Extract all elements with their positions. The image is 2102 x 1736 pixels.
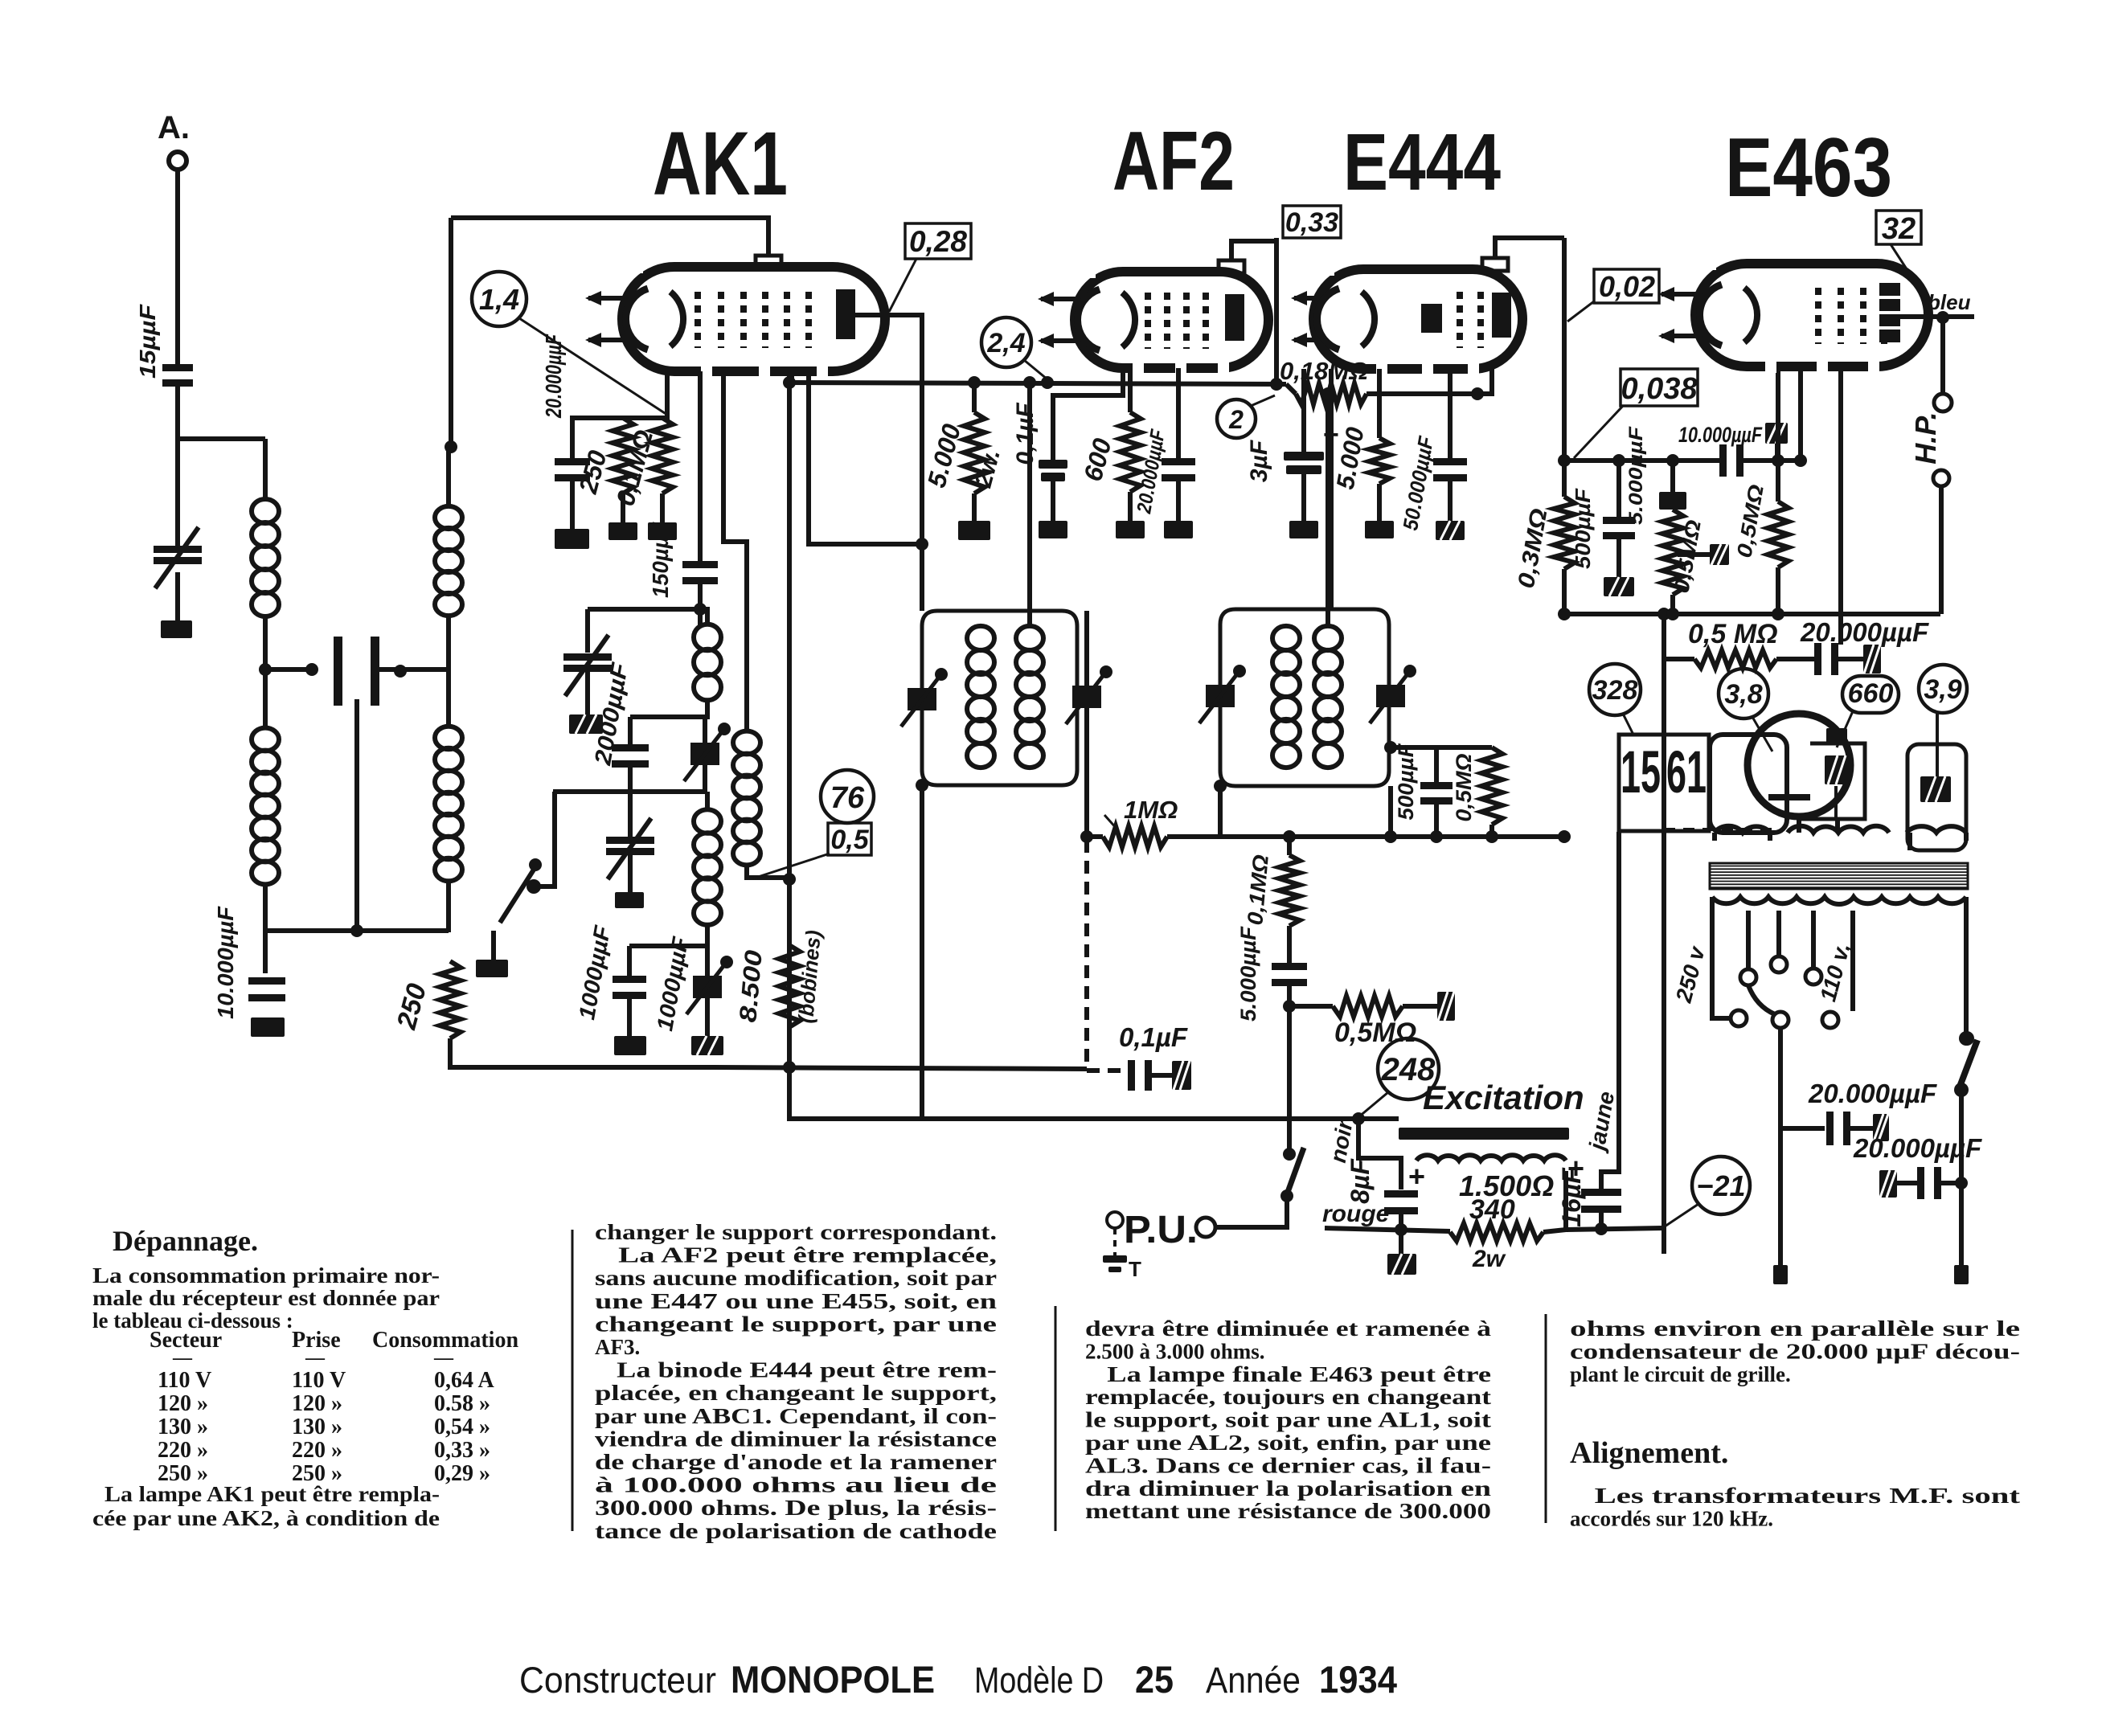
- svg-text:110 V: 110 V: [158, 1368, 211, 1393]
- svg-text:5.000µµF: 5.000µµF: [1236, 925, 1260, 1022]
- inductor antenna coil lower: [252, 728, 279, 751]
- wire 8500 top: [787, 879, 792, 945]
- wire leader 2,4: [1024, 360, 1047, 379]
- inductor coil long: [694, 809, 721, 833]
- label boxed 32: [1876, 211, 1921, 244]
- hatch 10000: [1765, 423, 1788, 444]
- svg-text:120 »: 120 »: [292, 1391, 342, 1416]
- wire AF bus left: [1087, 834, 1103, 839]
- svg-text:20.000µµF: 20.000µµF: [1808, 1079, 1937, 1108]
- svg-text:328: 328: [1592, 675, 1638, 706]
- svg-text:Alignement.: Alignement.: [1570, 1436, 1728, 1470]
- blob 5.000µµF: [1659, 492, 1686, 510]
- capacitor 20.000 µµF AK1: [555, 458, 590, 465]
- label boxed 0,038: [1621, 369, 1698, 406]
- svg-text:10.000µµF: 10.000µµF: [1678, 423, 1763, 447]
- svg-text:La binode E444 peut être rem-: La binode E444 peut être rem-: [595, 1358, 997, 1382]
- wire bus left y1157: [265, 928, 449, 933]
- wire AF2 g pin: [1053, 368, 1123, 460]
- wire sel2 bottom: [1778, 1128, 1783, 1265]
- svg-text:5.000µµF: 5.000µµF: [1625, 425, 1647, 525]
- wire AF2 topcap: [1231, 241, 1276, 260]
- svg-text:remplacée, toujours en changea: remplacée, toujours en changeant: [1085, 1385, 1491, 1409]
- capacitor 20.000 µµF mains 2: [1917, 1167, 1924, 1199]
- svg-text:8µF: 8µF: [1346, 1158, 1375, 1204]
- resistor 0,1 MΩ AK1: [652, 418, 673, 493]
- wire E444 topcap: [1495, 238, 1564, 258]
- wire 500µµF wires: [1434, 747, 1439, 784]
- hatch choke: [1920, 776, 1951, 802]
- wire to osc coil: [446, 447, 451, 506]
- svg-text:La AF2 peut être remplacée,: La AF2 peut être remplacée,: [595, 1243, 997, 1267]
- label circled 76: [821, 770, 874, 823]
- wire leader 0,28: [889, 259, 916, 312]
- svg-text:220 »: 220 »: [292, 1438, 342, 1463]
- speaker box right: [1799, 743, 1865, 819]
- wire switch down: [1959, 1093, 1964, 1183]
- resistor 0,5MΩ cath E463: [1768, 502, 1789, 567]
- svg-text:AF2: AF2: [1112, 115, 1235, 208]
- wire second coil bottom: [446, 881, 451, 932]
- svg-text:2: 2: [1228, 405, 1244, 434]
- svg-text:rouge: rouge: [1322, 1201, 1389, 1227]
- svg-text:3,8: 3,8: [1724, 679, 1762, 710]
- wire leader -21: [1662, 1204, 1698, 1228]
- wire field right: [1563, 1171, 1568, 1232]
- switch wave band lever: [500, 870, 534, 923]
- wire band switch stub: [491, 931, 496, 960]
- wire AK1 g1 pin: [698, 371, 703, 561]
- label circled 328: [1589, 664, 1641, 715]
- wire coil long top: [705, 792, 710, 810]
- svg-text:0,33 »: 0,33 »: [434, 1438, 490, 1463]
- wire E463 cath chain: [1776, 461, 1780, 502]
- capacitor 20.000 µµF grid: [1814, 643, 1821, 675]
- resistor 250 left: [440, 961, 461, 1038]
- wire AK1 cath pin: [572, 371, 667, 460]
- svg-text:0,54 »: 0,54 »: [434, 1415, 490, 1439]
- capacitor 8 µF: [1384, 1190, 1418, 1198]
- resistor 0,1 MΩ pot: [1279, 855, 1300, 926]
- variable capacitor 2000 µµF: [563, 653, 612, 661]
- terminal tap3: [1805, 968, 1821, 985]
- svg-text:15: 15: [1621, 739, 1661, 805]
- wire leader 660: [1837, 711, 1853, 747]
- wire leader 2: [1251, 395, 1275, 406]
- wire antenna to junction: [175, 384, 180, 547]
- switch PU: [1283, 1148, 1296, 1161]
- wire 500 E463: [1616, 461, 1621, 518]
- label circled 2,4: [981, 317, 1031, 367]
- wire coil tall top: [744, 722, 749, 731]
- ground hatch 50000: [1436, 521, 1465, 540]
- wire 3µF wires: [1301, 369, 1306, 452]
- resistor 600: [1120, 412, 1141, 492]
- hatch mains 2: [1879, 1170, 1897, 1198]
- wire tap 2: [1776, 911, 1781, 956]
- wire antenna tee: [178, 436, 265, 441]
- svg-text:La lampe finale E463 peut être: La lampe finale E463 peut être: [1085, 1362, 1491, 1386]
- wire row mid: [1776, 657, 1817, 661]
- svg-text:à 100.000 ohms au lieu de: à 100.000 ohms au lieu de: [595, 1473, 997, 1497]
- svg-text:devra être diminuée et ramenée: devra être diminuée et ramenée à: [1085, 1316, 1492, 1341]
- terminal PU circle: [1196, 1218, 1215, 1237]
- resistor 0,5 MΩ tone: [1289, 1004, 1333, 1009]
- field coil bar: [1399, 1128, 1569, 1140]
- wire leader 248: [1358, 1092, 1388, 1117]
- wire bias bus: [1564, 612, 1940, 616]
- inductor speaker coil B: [1788, 826, 1889, 833]
- svg-text:500µµF: 500µµF: [1571, 488, 1595, 569]
- wire noir: [1358, 1119, 1401, 1189]
- wire box left edge: [449, 218, 453, 447]
- wire E463 g pin: [1798, 366, 1803, 461]
- ground blob 20000 AF2: [1164, 521, 1193, 538]
- svg-text:1934: 1934: [1319, 1658, 1397, 1701]
- wire AK1 screen pin: [789, 371, 794, 381]
- wire 2000 vert: [585, 609, 590, 653]
- wire tap 3: [1811, 911, 1816, 968]
- label boxed 0,28: [905, 223, 971, 259]
- wire leader 1,4: [519, 318, 667, 415]
- ground blob 0,1MΩ AK1: [648, 522, 677, 540]
- blob band switch contact: [476, 960, 508, 977]
- wire dashed 01: [1087, 1068, 1129, 1073]
- wire E463 anode out: [1900, 314, 1974, 319]
- svg-text:340: 340: [1469, 1194, 1515, 1225]
- ground hatch 1000b: [691, 1036, 723, 1055]
- wire coupling tap right: [379, 667, 449, 672]
- resistor 250 AK1: [613, 418, 633, 493]
- svg-text:par une AL2, soit, enfin, par: par une AL2, soit, enfin, par une: [1085, 1431, 1491, 1455]
- wire AVC bracket: [1391, 745, 1492, 750]
- hatch mains 1: [1873, 1114, 1889, 1141]
- tube E444: [1313, 269, 1522, 369]
- resistor 0,5 MΩ AVC: [1481, 747, 1502, 825]
- wire trimmer to ground: [175, 572, 180, 620]
- terminal HP 2: [1933, 470, 1949, 486]
- wire leak bottom: [1670, 595, 1675, 614]
- wire bus 018 left: [1286, 384, 1296, 394]
- wire 8µF down: [1399, 1214, 1403, 1254]
- svg-text:0.58 »: 0.58 »: [434, 1391, 490, 1416]
- node junction antenna coil tap: [259, 663, 272, 676]
- inductor IF2 primary: [1272, 626, 1300, 650]
- wire 2000 gnd: [585, 672, 590, 714]
- wire osc coil bottom: [630, 700, 707, 717]
- svg-text:sans aucune modification, soit: sans aucune modification, soit par: [595, 1266, 997, 1290]
- wire main bus: [789, 383, 1286, 384]
- wire AK1 grid4 pin: [809, 371, 922, 544]
- wire 0,33 drop: [1274, 238, 1279, 384]
- svg-text:male du récepteur est donnée p: male du récepteur est donnée par: [92, 1286, 440, 1310]
- wire tap 4: [1850, 911, 1855, 1011]
- wire 05 AVC bottom: [1489, 825, 1494, 837]
- wire second coil middle: [446, 616, 451, 727]
- svg-text:mettant une résistance de 300.: mettant une résistance de 300.000: [1085, 1499, 1491, 1523]
- blob end 2440: [1954, 1265, 1969, 1284]
- svg-text:2.500 à 3.000 ohms.: 2.500 à 3.000 ohms.: [1085, 1339, 1265, 1363]
- wire primary left corner: [1712, 990, 1731, 1018]
- wire HP drop: [1940, 317, 1945, 394]
- wire choke stub: [1936, 713, 1939, 776]
- wire leader 328: [1623, 714, 1633, 735]
- capacitor coupling plates: [334, 637, 342, 706]
- wire cap row 2: [1849, 1126, 1873, 1131]
- ground blob 3µF: [1289, 521, 1318, 538]
- label circled 3,8: [1719, 669, 1768, 719]
- wire leader 38: [1752, 717, 1772, 751]
- wire rouge: [1325, 1228, 1450, 1231]
- wire padder vert: [628, 717, 633, 747]
- wire 0,3MΩ top: [1562, 238, 1567, 497]
- label oval 660: [1842, 676, 1899, 713]
- rule column separator 3: [1545, 1314, 1547, 1523]
- wire 1000 gnd: [627, 998, 632, 1036]
- svg-text:MONOPOLE: MONOPOLE: [731, 1658, 935, 1701]
- wire 340 to -21: [1543, 1228, 1662, 1232]
- svg-text:76: 76: [830, 781, 865, 815]
- svg-text:Constructeur: Constructeur: [519, 1660, 716, 1701]
- label circled 3,9: [1919, 665, 1967, 713]
- wire tone right: [1403, 1004, 1437, 1009]
- terminal sel1: [1731, 1010, 1747, 1026]
- svg-text:500µµF: 500µµF: [1394, 743, 1418, 821]
- wire 600 wires: [1128, 368, 1133, 412]
- svg-text:0,038: 0,038: [1621, 372, 1698, 406]
- svg-text:0,5 MΩ: 0,5 MΩ: [1688, 619, 1778, 649]
- wire 5000 bottom: [972, 383, 977, 412]
- trimmer 1000b: [693, 976, 722, 998]
- svg-text:changeant le support, par une: changeant le support, par une: [595, 1312, 997, 1336]
- trimmer IF1 right: [1072, 686, 1101, 708]
- speaker pole pieces: [1826, 728, 1847, 744]
- wire T dashed: [1113, 1228, 1117, 1255]
- svg-text:20.000µµF: 20.000µµF: [1800, 617, 1929, 647]
- choke box 3,9: [1907, 744, 1966, 850]
- svg-text:Les transformateurs M.F. sont: Les transformateurs M.F. sont: [1570, 1484, 2020, 1508]
- svg-text:2,4: 2,4: [986, 328, 1025, 358]
- wire 20000 AF2: [1176, 368, 1181, 460]
- trimmer IF2 left: [1206, 685, 1235, 707]
- hatch 20000 grid: [1863, 645, 1881, 674]
- svg-text:placée, en changeant le suppor: placée, en changeant le support,: [595, 1381, 997, 1405]
- capacitor 1000 µµF: [613, 976, 646, 983]
- wire 01 to hatch: [1151, 1073, 1172, 1078]
- wire choke drop: [1907, 833, 1912, 850]
- svg-text:32: 32: [1882, 212, 1916, 246]
- resistor 0,3 MΩ: [1554, 497, 1575, 569]
- inductor IF2 secondary: [1314, 626, 1342, 650]
- wire IF1 right vert: [1084, 611, 1089, 837]
- wire res 01 bottom: [660, 493, 665, 522]
- wire cap2 left: [1897, 1181, 1918, 1185]
- inductor antenna coil upper: [252, 499, 279, 523]
- wire AK1 screen drop: [787, 371, 792, 1067]
- wire res 250 bottom: [621, 493, 625, 522]
- svg-text:ohms environ en parallèle sur: ohms environ en parallèle sur le: [1570, 1316, 2020, 1341]
- terminal tap2: [1771, 956, 1787, 972]
- svg-text:660: 660: [1848, 678, 1894, 709]
- tube E463: [1695, 264, 1928, 366]
- svg-text:Année: Année: [1206, 1660, 1301, 1701]
- node top right joint: [1959, 1031, 1973, 1046]
- label circled 1,4: [472, 272, 527, 326]
- svg-text:par une ABC1. Cependant, il co: par une ABC1. Cependant, il con-: [595, 1404, 997, 1428]
- wire grid resistor tops: [572, 416, 662, 420]
- svg-text:P.U.: P.U.: [1124, 1209, 1198, 1251]
- wire antenna coil middle: [263, 616, 268, 728]
- svg-text:110 V: 110 V: [292, 1368, 346, 1393]
- wire leader 0,038: [1574, 406, 1623, 458]
- svg-text:tance de polarisation de catho: tance de polarisation de cathode: [595, 1519, 997, 1543]
- wire padder bus: [553, 789, 707, 794]
- ground blob 20.000 AK1: [555, 529, 589, 549]
- svg-text:0,5: 0,5: [830, 825, 869, 855]
- capacitor 150 µµF: [682, 561, 718, 568]
- svg-text:15µµF: 15µµF: [135, 304, 160, 379]
- inductor speaker coil C: [1907, 826, 1966, 833]
- svg-text:de charge d'anode et la ramene: de charge d'anode et la ramener: [595, 1450, 997, 1474]
- capacitor padder: [612, 744, 649, 751]
- wire 1000 bus: [629, 944, 707, 948]
- wire cap2 right: [1939, 1181, 1961, 1185]
- resistor 5.000 E444: [1369, 438, 1390, 484]
- svg-text:300.000 ohms. De plus, la rési: 300.000 ohms. De plus, la résis-: [595, 1496, 997, 1520]
- svg-text:0,02: 0,02: [1599, 270, 1655, 303]
- svg-text:0,33: 0,33: [1285, 207, 1338, 238]
- wire 1000b gnd: [705, 998, 710, 1036]
- ground hatch 2000: [569, 714, 603, 734]
- hatch tone end: [1437, 992, 1455, 1021]
- blob end 2215: [1773, 1265, 1788, 1284]
- svg-text:—: —: [172, 1348, 193, 1369]
- capacitor 20.000 µµF mains 1: [1826, 1112, 1834, 1145]
- svg-text:130 »: 130 »: [158, 1415, 208, 1439]
- ground blob 10.000: [251, 1017, 285, 1037]
- wire right edge bottom: [1959, 1183, 1964, 1265]
- wire leader 0,02: [1567, 301, 1594, 321]
- speaker inner lines: [1768, 794, 1810, 800]
- wire 50000 wires: [1448, 369, 1453, 460]
- trimmer IF2 right: [1376, 685, 1405, 707]
- wire pot mid: [1287, 926, 1292, 964]
- wire pot top: [1287, 837, 1292, 855]
- svg-text:10.000µµF: 10.000µµF: [213, 906, 238, 1019]
- wire AK1 anode to IF1: [855, 315, 922, 611]
- ground blob 5000: [958, 521, 990, 540]
- ground blob 250 AK1: [608, 522, 637, 540]
- wire primary left edge: [1710, 897, 1715, 990]
- wire osc top loop: [588, 583, 700, 609]
- blob band gnd: [615, 892, 644, 908]
- wire HP to bus: [1939, 487, 1944, 614]
- svg-text:130 »: 130 »: [292, 1415, 342, 1439]
- svg-text:1,4: 1,4: [479, 283, 519, 316]
- inductor coil tall: [733, 731, 760, 755]
- wire row left: [1664, 614, 1694, 659]
- svg-text:A.: A.: [158, 110, 190, 145]
- wire IF1 bottom down: [920, 785, 924, 1119]
- svg-text:—: —: [305, 1348, 326, 1369]
- wire coupling tap left: [265, 667, 312, 672]
- terminal sel3: [1822, 1012, 1838, 1028]
- wire PU: [1215, 1196, 1287, 1227]
- terminal tap1: [1740, 969, 1756, 985]
- wire 0,3MΩ bottom: [1562, 569, 1567, 614]
- inductor speaker coil A: [1715, 826, 1770, 833]
- inductor oscillator coil: [694, 624, 721, 651]
- wire coil long bottom: [705, 924, 710, 946]
- ground blob 600: [1116, 521, 1145, 538]
- wire top bus: [451, 218, 768, 256]
- trimmer IF1 left: [908, 688, 936, 710]
- svg-text:2w: 2w: [1472, 1246, 1506, 1272]
- ground blob antenna: [161, 620, 192, 638]
- trimmer osc: [703, 717, 707, 792]
- variable capacitor antenna trimmer: [154, 546, 202, 553]
- wire 20.000 to ground: [570, 481, 575, 529]
- wire excitation bus: [922, 1116, 1399, 1121]
- wire 16µF bottom: [1599, 1206, 1604, 1228]
- svg-text:cée par une AK2, à condition d: cée par une AK2, à condition de: [92, 1506, 440, 1530]
- wire 150µµF to osc box: [698, 583, 703, 625]
- box 1561: [1619, 735, 1709, 831]
- capacitor 500 µµF: [1420, 782, 1453, 789]
- resistor 5.000 2w: [964, 412, 985, 493]
- capacitor 20.000 µµF AF2: [1162, 458, 1195, 465]
- wire 250 to bottom line: [450, 1038, 711, 1067]
- svg-text:0,28: 0,28: [909, 225, 967, 258]
- svg-text:bleu: bleu: [1928, 290, 1971, 314]
- wire long left drop: [1662, 614, 1666, 1254]
- wire leader 0,5: [753, 854, 830, 878]
- capacitor 0,1 µF bottom: [1128, 1060, 1135, 1091]
- svg-text:une E447 ou une E455, soit, en: une E447 ou une E455, soit, en: [595, 1289, 997, 1313]
- svg-text:AL3. Dans ce dernier cas, il f: AL3. Dans ce dernier cas, il fau-: [1085, 1453, 1491, 1477]
- label circled 248: [1378, 1038, 1439, 1099]
- capacitor 0,1 µF AF2: [1039, 460, 1067, 469]
- speaker frame: [1710, 735, 1787, 833]
- wire IF1 right vert dashed: [1084, 840, 1089, 1069]
- inductor IF1 primary: [967, 626, 994, 650]
- wire to antenna coil: [263, 439, 268, 500]
- resistor 0,18 MΩ: [1296, 383, 1367, 404]
- switch mains: [1960, 1031, 1974, 1046]
- ground blob 0,1µF AF2: [1039, 521, 1067, 538]
- wire 16µF top: [1601, 832, 1619, 1196]
- svg-text:accordés sur 120 kHz.: accordés sur 120 kHz.: [1570, 1506, 1773, 1530]
- wire tap 1: [1746, 911, 1751, 969]
- terminal T circle: [1107, 1212, 1123, 1228]
- capacitor 3 µF: [1284, 452, 1324, 461]
- resistor 0,5MΩ leak: [1662, 510, 1683, 595]
- ground hatch 500 E463: [1604, 577, 1634, 596]
- terminal sel2: [1772, 1012, 1789, 1028]
- svg-text:+: +: [1567, 1152, 1584, 1185]
- wire 5000 E444: [1377, 369, 1382, 438]
- svg-text:25: 25: [1135, 1658, 1174, 1701]
- wire 8500 bottom: [789, 1027, 922, 1119]
- wire IF1 sec top up: [1027, 383, 1032, 627]
- rule column separator 1: [572, 1230, 574, 1531]
- wire row right: [1836, 657, 1863, 661]
- svg-text:dra diminuer la polarisation e: dra diminuer la polarisation en: [1085, 1476, 1491, 1501]
- variable capacitor band: [606, 837, 654, 844]
- wire E463 cath pin: [1776, 366, 1780, 461]
- box IF transformer 2: [1220, 609, 1389, 786]
- inductor second coil upper: [435, 506, 462, 529]
